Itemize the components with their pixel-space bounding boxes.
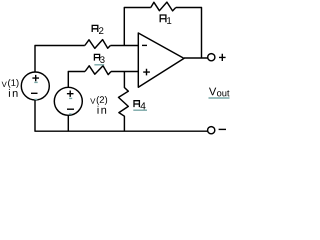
label V(2) in bbox=[90, 96, 107, 114]
wire feedback left vertical bbox=[124, 8, 151, 46]
op-amp noninverting pin plus sign bbox=[143, 69, 150, 76]
label R2 bbox=[92, 25, 103, 34]
output terminal plus bbox=[208, 54, 215, 61]
R4 label underline bbox=[133, 109, 147, 111]
resistor R1 bbox=[151, 2, 176, 11]
wire R3 to op-amp noninverting input bbox=[111, 71, 138, 73]
source V1 bbox=[21, 72, 49, 100]
output plus sign bbox=[219, 54, 226, 61]
V1 minus sign bbox=[31, 92, 38, 94]
label R3 bbox=[94, 54, 104, 63]
V2 minus sign bbox=[67, 108, 74, 110]
wire V2 bottom bbox=[67, 115, 69, 131]
Vout label underline bbox=[209, 97, 230, 99]
wire feedback right vertical bbox=[176, 8, 202, 59]
output terminal minus bbox=[208, 127, 215, 134]
resistor R4 bbox=[119, 72, 129, 132]
op-amp U1 bbox=[138, 33, 184, 87]
label V(1) in bbox=[2, 79, 19, 97]
label Vout bbox=[209, 88, 230, 97]
label R4 bbox=[134, 101, 146, 110]
wire bottom rail bbox=[35, 100, 208, 131]
resistor R3 bbox=[85, 66, 111, 75]
V1 cyan tick under minus bbox=[35, 98, 38, 100]
wire op-amp output bbox=[184, 57, 208, 59]
wire R2 to op-amp inverting input bbox=[110, 45, 138, 47]
R3 label underline bbox=[94, 64, 104, 66]
V2 cyan tick under minus bbox=[69, 113, 72, 115]
resistor R2 bbox=[85, 40, 111, 49]
V2 plus sign bbox=[67, 91, 74, 97]
wire V2 top to R3 bbox=[68, 72, 85, 88]
op-amp inverting pin minus sign bbox=[142, 44, 147, 46]
wire V1 top to R2 bbox=[35, 46, 85, 73]
source V2 bbox=[54, 87, 82, 115]
V1 plus sign bbox=[32, 75, 39, 81]
label R1 bbox=[160, 15, 171, 24]
V2 cyan tick under plus bbox=[69, 97, 72, 99]
V1 cyan tick under plus bbox=[34, 81, 37, 83]
output minus sign bbox=[219, 128, 226, 130]
